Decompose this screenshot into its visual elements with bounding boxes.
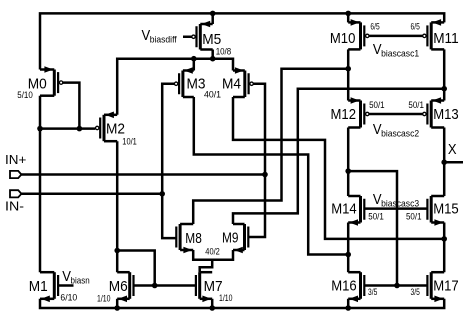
svg-text:M2: M2 — [106, 121, 125, 138]
svg-text:50/1: 50/1 — [406, 211, 422, 221]
svg-text:50/1: 50/1 — [408, 100, 424, 110]
svg-text:3/5: 3/5 — [368, 287, 377, 297]
svg-text:50/1: 50/1 — [369, 100, 385, 110]
svg-text:M13: M13 — [433, 106, 459, 123]
svg-text:biascasc1: biascasc1 — [381, 49, 419, 60]
svg-text:1/10: 1/10 — [97, 294, 111, 304]
svg-text:50/1: 50/1 — [368, 211, 384, 221]
svg-text:biascasc3: biascasc3 — [381, 199, 419, 210]
svg-text:biasn: biasn — [71, 276, 90, 287]
svg-text:M15: M15 — [433, 201, 459, 218]
svg-text:M1: M1 — [29, 278, 48, 295]
svg-text:M4: M4 — [222, 75, 241, 92]
svg-text:M8: M8 — [185, 230, 202, 247]
svg-text:M10: M10 — [330, 30, 356, 47]
svg-text:M9: M9 — [222, 230, 239, 247]
svg-text:5/10: 5/10 — [17, 90, 33, 100]
svg-text:6/5: 6/5 — [370, 22, 379, 32]
svg-text:M16: M16 — [331, 278, 357, 295]
svg-text:6/10: 6/10 — [60, 293, 77, 303]
svg-text:X: X — [448, 141, 457, 158]
svg-text:M6: M6 — [109, 278, 128, 295]
svg-text:40/2: 40/2 — [205, 246, 220, 256]
svg-text:biasdiff: biasdiff — [150, 35, 177, 46]
svg-text:M5: M5 — [202, 31, 221, 48]
svg-text:IN-: IN- — [5, 200, 24, 214]
svg-text:IN+: IN+ — [5, 153, 26, 167]
svg-text:3/5: 3/5 — [411, 287, 420, 297]
svg-text:10/1: 10/1 — [122, 137, 137, 147]
svg-text:M12: M12 — [331, 106, 357, 123]
svg-text:1/10: 1/10 — [219, 293, 233, 303]
svg-text:M3: M3 — [187, 75, 206, 92]
svg-text:biascasc2: biascasc2 — [381, 129, 419, 140]
svg-text:10/8: 10/8 — [216, 47, 232, 57]
svg-text:40/1: 40/1 — [204, 89, 221, 99]
svg-text:M14: M14 — [331, 200, 357, 217]
svg-text:M11: M11 — [433, 30, 459, 47]
svg-text:6/5: 6/5 — [411, 22, 420, 32]
svg-text:M17: M17 — [433, 278, 459, 295]
